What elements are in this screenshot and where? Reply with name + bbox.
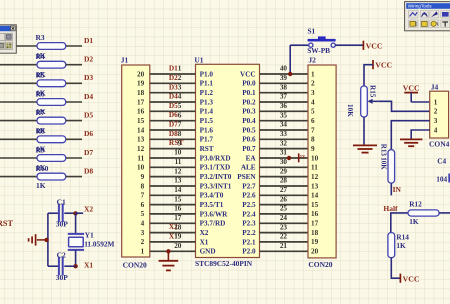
toolbar icon: place bus <box>420 11 428 18</box>
svg-text:10K: 10K <box>346 104 354 117</box>
value 1K of R8 overlapping designator R9 <box>36 145 46 155</box>
svg-text:1K: 1K <box>409 217 419 226</box>
wire J1 pin 7 to U1 pin 14 <box>150 194 196 196</box>
svg-text:P1.7: P1.7 <box>200 136 214 144</box>
svg-text:P0.2: P0.2 <box>242 98 256 106</box>
wire VCC-net to S1 left / down to J2 pin1 row <box>290 45 308 74</box>
svg-text:31: 31 <box>280 149 288 157</box>
value 1K of R3 overlapping designator R4 <box>36 51 46 61</box>
svg-text:R3: R3 <box>36 33 45 42</box>
svg-text:R8: R8 <box>36 127 45 136</box>
wire J1 pin 3 to U1 pin 18 <box>150 232 196 234</box>
svg-text:6: 6 <box>178 111 182 119</box>
svg-text:R5: R5 <box>36 71 45 80</box>
svg-text:VCC: VCC <box>375 60 392 69</box>
wire vertical C1-C2 left feed <box>47 213 49 266</box>
wire J1 pin 13 to U1 pin 8 <box>150 138 196 140</box>
svg-text:R13: R13 <box>379 144 387 157</box>
resistor R10 with wires to net D8 <box>0 173 82 180</box>
wire U1 pin 21 to J2 pin 20 <box>260 250 309 252</box>
wire J1 pin 2 to U1 pin 19 <box>150 241 196 243</box>
svg-text:P0.5: P0.5 <box>242 126 256 134</box>
svg-text:8: 8 <box>141 182 145 190</box>
svg-text:3: 3 <box>178 83 182 91</box>
svg-text:1K: 1K <box>396 241 406 250</box>
svg-text:D2: D2 <box>84 55 93 64</box>
wire J1 pin 19 to U1 pin 2 <box>150 82 196 84</box>
svg-text:RST: RST <box>0 219 13 228</box>
wire J1 pin 17 to U1 pin 4 <box>150 101 196 103</box>
svg-text:16: 16 <box>311 210 319 218</box>
svg-text:2: 2 <box>311 80 315 88</box>
svg-text:20: 20 <box>311 248 319 256</box>
svg-text:23: 23 <box>280 223 288 231</box>
value 1K of R5 overlapping designator R6 <box>36 89 46 99</box>
svg-text:D4: D4 <box>84 92 93 101</box>
svg-text:P1.0: P1.0 <box>200 70 214 78</box>
value 1K of R7 overlapping designator R8 <box>36 126 46 136</box>
svg-text:D2: D2 <box>169 73 178 82</box>
svg-text:RST: RST <box>200 145 214 153</box>
wire J4 pin4 to ground <box>411 130 430 139</box>
connector J1 (CON20) <box>122 65 150 257</box>
svg-text:17: 17 <box>174 214 182 222</box>
junction at C1/X2 <box>73 211 77 215</box>
svg-text:15: 15 <box>311 201 319 209</box>
svg-text:Y1: Y1 <box>85 230 94 239</box>
svg-text:3: 3 <box>141 229 145 237</box>
wire X2 node down to crystal <box>75 213 77 233</box>
svg-text:D7: D7 <box>84 148 93 157</box>
wire U1 pin 39 to J2 pin 2 <box>260 82 309 84</box>
svg-text:26: 26 <box>280 195 288 203</box>
svg-text:VCC: VCC <box>403 275 420 284</box>
svg-text:J2: J2 <box>308 56 316 65</box>
wire U1 pin 34 to J2 pin 7 <box>260 129 309 131</box>
svg-text:P1.4: P1.4 <box>200 108 214 116</box>
svg-text:P0.1: P0.1 <box>242 89 256 97</box>
svg-text:11.0592M: 11.0592M <box>84 239 114 248</box>
svg-text:15: 15 <box>174 195 182 203</box>
wire R12 right to edge <box>439 212 450 214</box>
toolbar icon: net label <box>441 11 450 18</box>
svg-text:20: 20 <box>174 242 182 250</box>
svg-text:30P: 30P <box>56 273 69 282</box>
svg-text:34: 34 <box>280 121 288 129</box>
svg-text:7: 7 <box>311 126 315 134</box>
wire J1 pin 11 to U1 pin 10 <box>150 157 196 159</box>
wire U1 pin 28 to J2 pin 13 <box>260 185 309 187</box>
power port VCC (right of S1) <box>363 41 382 51</box>
wire J1 pin 8 to U1 pin 13 <box>150 185 196 187</box>
wire U1 pin 31 to J2 pin 10 <box>260 157 309 159</box>
svg-text:104: 104 <box>436 174 447 183</box>
wire J1 pin 18 to U1 pin 3 <box>150 92 196 94</box>
svg-text:10K: 10K <box>379 157 387 170</box>
svg-text:4: 4 <box>311 98 315 106</box>
toolbar window WiringTools (clipped right) <box>405 2 450 31</box>
svg-text:P0.6: P0.6 <box>242 136 256 144</box>
wire to X2 label <box>76 212 84 214</box>
svg-text:20: 20 <box>137 70 145 78</box>
svg-text:24: 24 <box>280 214 288 222</box>
svg-text:4: 4 <box>434 126 438 134</box>
wire R15 bottom to ground <box>363 117 365 145</box>
toolbar icon: place wire <box>408 11 418 18</box>
resistor R7 with wires to net D5 <box>0 117 82 124</box>
svg-text:P2.1: P2.1 <box>242 238 256 246</box>
svg-text:X1: X1 <box>84 261 93 270</box>
wire U1 pin 38 to J2 pin 3 <box>260 92 309 94</box>
svg-text:19: 19 <box>311 238 319 246</box>
wire J1 pin 9 to U1 pin 12 <box>150 176 196 178</box>
wire J1 pin 4 to U1 pin 17 <box>150 222 196 224</box>
wire U1 pin 30 to J2 pin 11 <box>260 166 309 168</box>
junction at J2 pin1 / pin40 wire <box>288 72 292 76</box>
svg-text:19: 19 <box>137 80 145 88</box>
svg-text:P2.4: P2.4 <box>242 210 256 218</box>
svg-text:P2.5: P2.5 <box>242 201 256 209</box>
value 1K of R9 overlapping designator R10 <box>36 163 49 173</box>
svg-text:7: 7 <box>141 192 145 200</box>
svg-text:18: 18 <box>311 229 319 237</box>
wire S1 right to VCC <box>335 44 363 46</box>
svg-text:1: 1 <box>311 70 315 78</box>
svg-text:13: 13 <box>174 177 182 185</box>
R15 wiper arrow <box>368 99 379 104</box>
svg-text:J1: J1 <box>121 56 129 65</box>
resistor R6 with wires to net D4 <box>0 99 82 106</box>
svg-text:11: 11 <box>175 158 182 166</box>
svg-text:30: 30 <box>280 158 288 166</box>
svg-text:8: 8 <box>311 136 315 144</box>
resistor R12 body <box>408 210 439 216</box>
wire U1 pin 32 to J2 pin 9 <box>260 148 309 150</box>
svg-text:U1: U1 <box>194 56 203 65</box>
svg-text:1: 1 <box>434 98 438 106</box>
junction on EA wire <box>287 156 291 160</box>
wire U1 pin 27 to J2 pin 14 <box>260 194 309 196</box>
junction at J1 pin1 wire <box>166 249 170 253</box>
capacitor C4 plate (clipped) <box>448 174 450 183</box>
power port VCC (below R14) <box>400 274 419 284</box>
svg-text:18: 18 <box>137 89 145 97</box>
svg-text:5: 5 <box>311 108 315 116</box>
svg-text:D7: D7 <box>169 120 178 129</box>
svg-text:P1.5: P1.5 <box>200 117 214 125</box>
svg-text:STC89C52-40PIN: STC89C52-40PIN <box>195 259 253 268</box>
wire U1 pin 22 to J2 pin 19 <box>260 241 309 243</box>
svg-text:D6: D6 <box>169 110 178 119</box>
svg-text:10: 10 <box>137 164 145 172</box>
svg-text:ALE: ALE <box>241 164 256 172</box>
svg-text:30P: 30P <box>56 219 69 228</box>
svg-text:D1: D1 <box>84 36 93 45</box>
svg-text:P2.6: P2.6 <box>242 192 256 200</box>
svg-text:D8: D8 <box>84 166 93 175</box>
svg-text:D5: D5 <box>169 101 178 110</box>
wire J1 pin 12 to U1 pin 9 <box>150 148 196 150</box>
ground (below J1 pin1 wire) <box>159 251 179 270</box>
svg-text:14: 14 <box>174 186 182 194</box>
svg-text:GND: GND <box>200 248 216 256</box>
svg-text:IN: IN <box>393 185 402 194</box>
svg-text:1: 1 <box>141 248 145 256</box>
wire J1 pin 10 to U1 pin 11 <box>150 166 196 168</box>
resistor R9 with wires to net D7 <box>0 155 82 162</box>
svg-text:S1: S1 <box>307 27 315 36</box>
svg-text:12: 12 <box>174 167 182 175</box>
svg-text:17: 17 <box>137 98 145 106</box>
svg-text:8: 8 <box>178 130 182 138</box>
svg-text:P1.3: P1.3 <box>200 98 214 106</box>
svg-text:J4: J4 <box>431 83 439 92</box>
resistor R8 with wires to net D6 <box>0 136 82 143</box>
svg-text:R4: R4 <box>36 52 45 61</box>
svg-text:P3.0/RXD: P3.0/RXD <box>200 154 231 162</box>
svg-text:5: 5 <box>178 102 182 110</box>
svg-text:3: 3 <box>434 117 438 125</box>
wire J1 pin 14 to U1 pin 7 <box>150 129 196 131</box>
svg-text:16: 16 <box>174 205 182 213</box>
toolbar icon: power port <box>441 20 450 28</box>
svg-text:2: 2 <box>178 74 182 82</box>
svg-text:6: 6 <box>141 201 145 209</box>
wire J1 pin 5 to U1 pin 16 <box>150 213 196 215</box>
toolbar icon: buzzer (yellow round) <box>430 20 439 28</box>
wire J1 pin 16 to U1 pin 5 <box>150 110 196 112</box>
svg-text:28: 28 <box>280 177 288 185</box>
svg-text:19: 19 <box>174 233 182 241</box>
svg-text:12: 12 <box>311 173 319 181</box>
resistor R14 body <box>388 233 395 258</box>
wire J1 pin 1 to U1 pin 20 <box>150 250 196 252</box>
svg-text:X2: X2 <box>84 204 93 213</box>
svg-text:P3.2/INT0: P3.2/INT0 <box>200 173 232 181</box>
svg-text:P0.4: P0.4 <box>242 117 256 125</box>
svg-text:D8: D8 <box>169 129 178 138</box>
svg-text:CON20: CON20 <box>308 260 332 269</box>
svg-text:15: 15 <box>137 117 145 125</box>
wire R13 bottom to IN label <box>390 183 392 195</box>
crystal Y1 <box>68 234 84 250</box>
svg-text:D6: D6 <box>84 129 93 138</box>
svg-text:P3.5/T1: P3.5/T1 <box>200 201 224 209</box>
power port VCC (above R15) <box>373 60 392 69</box>
svg-text:21: 21 <box>280 242 288 250</box>
wire U1 pin 35 to J2 pin 6 <box>260 120 309 122</box>
wire crystal to X1 node <box>75 250 77 266</box>
capacitor C1 <box>48 204 76 223</box>
svg-text:P1.6: P1.6 <box>200 126 214 134</box>
wire R14 bottom to VCC <box>391 258 400 279</box>
svg-text:P3.1/TXD: P3.1/TXD <box>200 164 231 172</box>
svg-text:SW-PB: SW-PB <box>307 46 330 55</box>
svg-text:CON20: CON20 <box>123 261 147 270</box>
svg-text:R9: R9 <box>36 145 45 154</box>
svg-text:X1: X1 <box>200 238 209 246</box>
ground (left, rotated) <box>29 234 47 245</box>
svg-text:18: 18 <box>174 223 182 231</box>
ground (below J4 pin4) <box>400 139 422 146</box>
svg-text:D3: D3 <box>84 73 93 82</box>
svg-text:36: 36 <box>280 102 288 110</box>
svg-text:R12: R12 <box>409 200 422 209</box>
svg-text:1: 1 <box>178 65 182 73</box>
svg-text:R10: R10 <box>36 164 49 173</box>
svg-text:3: 3 <box>311 89 315 97</box>
svg-text:37: 37 <box>280 93 288 101</box>
svg-text:VCC: VCC <box>366 42 383 51</box>
svg-text:29: 29 <box>280 167 288 175</box>
wire J1 pin 6 to U1 pin 15 <box>150 204 196 206</box>
svg-text:D4: D4 <box>169 92 178 101</box>
resistor R13 body <box>388 150 395 183</box>
toolbar window (drawing tools, clipped left) <box>0 25 16 53</box>
svg-text:Half: Half <box>383 204 398 213</box>
svg-text:P2.7: P2.7 <box>242 182 256 190</box>
svg-text:4: 4 <box>178 93 182 101</box>
svg-text:33: 33 <box>280 130 288 138</box>
svg-text:5: 5 <box>141 210 145 218</box>
svg-text:6: 6 <box>311 117 315 125</box>
svg-text:PSEN: PSEN <box>237 173 256 181</box>
svg-text:P3.3/INT1: P3.3/INT1 <box>200 182 232 190</box>
wire Half node <box>391 213 408 233</box>
svg-text:14: 14 <box>137 126 145 134</box>
svg-text:P2.2: P2.2 <box>242 229 256 237</box>
svg-text:R7: R7 <box>36 108 45 117</box>
toolbar icon: place part 2 (yellow) <box>420 20 428 28</box>
svg-text:38: 38 <box>280 83 288 91</box>
resistor R3 with wires to net D1 <box>0 43 82 50</box>
svg-text:14: 14 <box>311 192 319 200</box>
svg-text:VCC: VCC <box>240 70 256 78</box>
wire U1 pin 36 to J2 pin 5 <box>260 110 309 112</box>
wire U1 pin 37 to J2 pin 4 <box>260 101 309 103</box>
svg-text:R6: R6 <box>36 89 45 98</box>
svg-text:P0.0: P0.0 <box>242 80 256 88</box>
capacitor C2 <box>48 257 76 276</box>
svg-text:9: 9 <box>141 173 145 181</box>
svg-text:22: 22 <box>280 233 288 241</box>
wire U1 pin 33 to J2 pin 8 <box>260 138 309 140</box>
svg-text:35: 35 <box>280 111 288 119</box>
switch S1 (SW-PB) <box>308 36 336 47</box>
svg-text:25: 25 <box>280 205 288 213</box>
svg-text:11: 11 <box>137 154 144 162</box>
svg-text:X2: X2 <box>200 229 209 237</box>
svg-text:P3.6/WR: P3.6/WR <box>200 210 229 218</box>
svg-text:32: 32 <box>280 139 288 147</box>
svg-text:R15: R15 <box>368 85 376 98</box>
svg-text:2: 2 <box>141 238 145 246</box>
svg-text:39: 39 <box>280 74 288 82</box>
svg-text:P1.1: P1.1 <box>200 80 214 88</box>
svg-text:C1: C1 <box>57 198 66 207</box>
svg-text:13: 13 <box>311 182 319 190</box>
svg-text:7: 7 <box>178 121 182 129</box>
svg-text:40: 40 <box>280 65 288 73</box>
svg-text:10: 10 <box>174 149 182 157</box>
svg-text:WiringTools: WiringTools <box>408 4 432 9</box>
value 1K of R4 overlapping designator R5 <box>36 70 46 80</box>
potentiometer R15 body <box>361 86 368 117</box>
toolbar icon: place part (yellow) <box>408 20 418 28</box>
ground (below R15) <box>353 145 377 152</box>
value 1K of R6 overlapping designator R7 <box>36 107 46 117</box>
wire U1 pin 26 to J2 pin 15 <box>260 204 309 206</box>
resistor R4 with wires to net D2 <box>0 61 82 68</box>
wire U1 pin 29 to J2 pin 12 <box>260 176 309 178</box>
svg-text:13: 13 <box>137 136 145 144</box>
svg-text:10: 10 <box>311 154 319 162</box>
svg-text:P3.7/RD: P3.7/RD <box>200 220 226 228</box>
svg-text:27: 27 <box>280 186 288 194</box>
svg-text:C2: C2 <box>57 251 66 260</box>
connector J2 (CON20) <box>308 65 336 258</box>
svg-text:D5: D5 <box>84 110 93 119</box>
junction at ground/C1-C2 feed <box>44 238 48 242</box>
resistor R5 with wires to net D3 <box>0 80 82 87</box>
svg-text:2: 2 <box>434 108 438 116</box>
svg-text:P3.4/T0: P3.4/T0 <box>200 192 224 200</box>
wire VCC stem to J4 pin1 <box>411 101 430 103</box>
junction at X1 <box>73 264 77 268</box>
svg-text:P2.0: P2.0 <box>242 248 256 256</box>
toolbar icon: wire cursor <box>430 11 439 18</box>
svg-text:16: 16 <box>137 108 145 116</box>
svg-text:CON4: CON4 <box>429 139 450 148</box>
svg-text:P1.2: P1.2 <box>200 89 214 97</box>
wire U1 pin 24 to J2 pin 17 <box>260 222 309 224</box>
wire U1 pin 25 to J2 pin 16 <box>260 213 309 215</box>
svg-text:P2.3: P2.3 <box>242 220 256 228</box>
svg-text:9: 9 <box>311 145 315 153</box>
op-amp/IC U1 STC89C52 body <box>196 64 260 257</box>
svg-text:5V: 5V <box>300 154 306 159</box>
svg-text:VCC: VCC <box>403 84 420 93</box>
svg-text:C4: C4 <box>437 157 446 166</box>
svg-text:17: 17 <box>311 220 319 228</box>
svg-text:D1: D1 <box>169 64 178 73</box>
wire J4 pin3 down to R13 <box>391 121 429 150</box>
svg-text:P0.7: P0.7 <box>242 145 256 153</box>
connector J4 <box>430 91 449 138</box>
svg-text:11: 11 <box>311 164 318 172</box>
svg-text:1K: 1K <box>36 181 46 190</box>
wire wiper to J4 pin 2 <box>379 101 430 111</box>
wire J1 pin 20 to U1 pin 1 <box>150 73 196 75</box>
power port VCC (above J4) <box>403 84 420 102</box>
wire U1 pin 23 to J2 pin 18 <box>260 232 309 234</box>
power port bar +5V on EA <box>299 153 306 162</box>
svg-text:12: 12 <box>137 145 145 153</box>
svg-text:4: 4 <box>141 220 145 228</box>
wire U1 pin 40 to J2 pin 1 <box>260 73 309 75</box>
svg-text:D3: D3 <box>169 82 178 91</box>
svg-text:EA: EA <box>246 154 257 162</box>
wire VCC to R15 top <box>364 65 373 86</box>
svg-text:P0.3: P0.3 <box>242 108 256 116</box>
svg-text:9: 9 <box>178 139 182 147</box>
wire J1 pin 15 to U1 pin 6 <box>150 120 196 122</box>
